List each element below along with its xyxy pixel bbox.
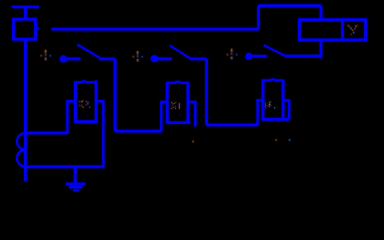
battery terminal bar: [12, 6, 39, 9]
switch S2 blade: [170, 46, 190, 59]
ground stub: [74, 167, 77, 183]
coil L1 arc 1: [17, 133, 25, 150]
wire bus riser: [257, 6, 260, 29]
switch S2 stub: [158, 58, 172, 61]
ground: [66, 183, 86, 186]
wire S3 right: [284, 55, 322, 58]
wire top bus: [52, 28, 259, 31]
lamp L1 body: [74, 82, 98, 121]
wire drop to box: [320, 6, 323, 19]
fuse right tick: [37, 27, 39, 29]
lamp L2 top: [166, 81, 189, 83]
wire S2 drop: [205, 59, 208, 125]
lamp L1 right bracket: [96, 101, 105, 167]
coil L1 arc 2: [17, 150, 25, 167]
switch S3 stub: [252, 55, 266, 58]
label S3: [227, 49, 238, 60]
label V in control box: [348, 25, 358, 36]
box divider: [341, 20, 344, 40]
lamp L3 left bracket: [256, 100, 263, 125]
label S1: [40, 50, 51, 61]
fuse F1 box: [14, 19, 36, 39]
switch S1 blade: [77, 45, 100, 58]
speck under lamp3: [275, 139, 277, 141]
switch S3 blade: [264, 45, 285, 56]
lamp L1 top: [74, 80, 97, 82]
wire top run: [259, 4, 322, 7]
lamp L2 body: [166, 83, 190, 123]
switch S3 contact: [245, 53, 252, 60]
wire S2 run to lamp3: [207, 124, 258, 127]
wire S1 right: [99, 58, 115, 61]
wire bottom: [24, 165, 104, 168]
label lamp L1 value: [79, 100, 90, 108]
lamp L3 top: [262, 78, 285, 80]
label lamp L2 value: [171, 102, 180, 109]
control box U1: [299, 20, 365, 40]
switch S1 contact: [60, 55, 67, 62]
lamp L3 body: [262, 80, 290, 119]
battery stub wire: [24, 7, 27, 19]
lamp L2 right bracket: [188, 102, 197, 127]
lamp L3 right bracket: [283, 100, 290, 119]
wire coil top tap: [25, 132, 67, 135]
label S2: [133, 51, 144, 62]
wire S1 bottom run: [115, 130, 161, 133]
lamp L1 left bracket: [66, 101, 75, 133]
switch S2 contact: [151, 55, 158, 62]
wire box bottom stub: [320, 40, 323, 58]
lamp L2 left bracket: [160, 102, 167, 131]
switch S1 stub: [67, 58, 81, 61]
wire S2 right: [190, 58, 207, 61]
label lamp L3 value: [265, 101, 276, 109]
wire S1 drop: [114, 59, 117, 131]
speck left of lamp2 leg: [192, 141, 194, 143]
wire left vertical: [24, 39, 27, 181]
